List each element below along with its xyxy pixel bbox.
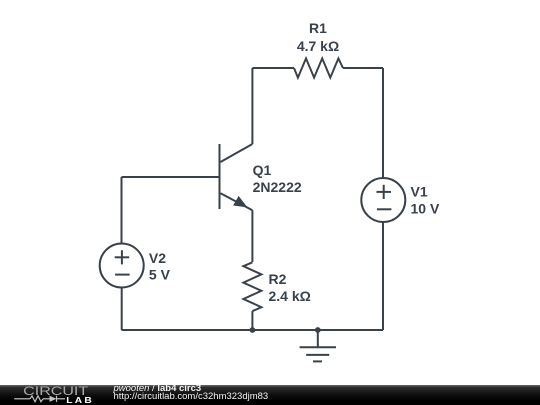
wire top-right segment (343, 67, 383, 69)
svg-text:2.4 kΩ: 2.4 kΩ (269, 288, 311, 304)
wire collector vertical (251, 68, 253, 144)
svg-text:V2: V2 (149, 250, 166, 266)
voltage source V2 (100, 244, 171, 288)
footer bar (0, 385, 540, 405)
node junction (ground / bottom rail) (315, 327, 321, 333)
resistor R1 (294, 20, 343, 78)
CircuitLab logo (10, 384, 110, 405)
wire base (122, 176, 220, 178)
svg-text:10 V: 10 V (411, 201, 440, 217)
svg-text:Q1: Q1 (253, 162, 272, 178)
svg-text:4.7 kΩ: 4.7 kΩ (297, 38, 339, 54)
wire right vertical (bottom, V1 to bottom rail) (382, 222, 384, 330)
svg-text:V1: V1 (411, 184, 428, 200)
svg-text:LAB: LAB (66, 396, 94, 405)
svg-text:5 V: 5 V (149, 266, 171, 282)
wire emitter vertical (251, 210, 253, 262)
svg-text:2N2222: 2N2222 (253, 179, 302, 195)
transistor Q1 (220, 144, 302, 210)
wire top-left segment (252, 67, 294, 69)
voltage source V1 (361, 178, 440, 222)
wire left vertical (base to V2) (121, 177, 123, 244)
svg-text:R1: R1 (309, 20, 327, 36)
node junction (R2 / bottom rail) (250, 327, 256, 333)
wire bottom rail (122, 329, 384, 331)
wire right vertical (top, V1 to top rail) (382, 68, 384, 178)
wire R2 to bottom rail (251, 311, 253, 330)
svg-text:R2: R2 (269, 271, 287, 287)
wire left vertical (V2 to bottom rail) (121, 288, 123, 331)
credit text (113, 0, 115, 1)
ground (300, 330, 336, 361)
resistor R2 (243, 262, 310, 311)
